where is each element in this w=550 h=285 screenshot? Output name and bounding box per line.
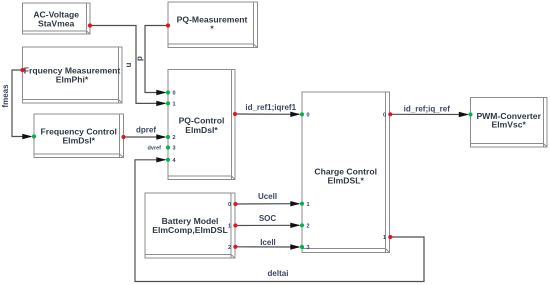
wire Ucell (Battery out0 to Charge Control in1) xyxy=(235,203,299,205)
svg-text:id_ref;iq_ref: id_ref;iq_ref xyxy=(404,104,451,113)
svg-text:Ucell: Ucell xyxy=(258,192,277,201)
port out0 of PQ-Control (red) xyxy=(233,112,237,116)
arrow into PQ-Control in4 xyxy=(156,157,166,162)
wire id_ref1;iqref1 (PQ-Control out0 to Charge Control in0) xyxy=(235,113,299,115)
svg-text:id_ref1;iqref1: id_ref1;iqref1 xyxy=(245,103,296,112)
block U2 PQ-Measurement xyxy=(168,2,258,48)
wire p (PQ-Measurement out to PQ-Control in0) xyxy=(145,26,167,93)
arrow into PWM-Converter in0 xyxy=(459,112,469,117)
port in0 of Frequency Control (green) xyxy=(32,134,36,138)
port in1 of Charge Control (green) + pin number 1 xyxy=(300,202,304,206)
port out1 of Battery Model (red) + pin number 1 xyxy=(233,223,237,227)
arrow into Charge Control in0 xyxy=(290,112,300,117)
svg-text:ElmDsl*: ElmDsl* xyxy=(62,135,95,145)
wire dpref (Frequency Control out to PQ-Control in2) xyxy=(124,136,166,138)
svg-text:deltai: deltai xyxy=(268,269,289,278)
svg-text:2: 2 xyxy=(228,245,231,251)
svg-text:3: 3 xyxy=(307,245,310,251)
wire u (AC-Voltage out to PQ-Control in1) xyxy=(90,26,165,104)
svg-text:0: 0 xyxy=(173,91,176,97)
svg-text:ElmVsc*: ElmVsc* xyxy=(491,120,526,130)
port in0 of Charge Control (green) + pin number 0 xyxy=(300,112,304,116)
svg-text:1: 1 xyxy=(228,224,231,230)
arrow into PQ-Control in1 xyxy=(156,101,166,106)
svg-text:0: 0 xyxy=(307,113,310,119)
port in0 of PWM-Converter (green) xyxy=(468,112,472,116)
svg-text:1: 1 xyxy=(383,235,386,241)
svg-text:dvref: dvref xyxy=(148,146,162,152)
svg-text:u: u xyxy=(124,62,133,67)
svg-text:dpref: dpref xyxy=(136,125,156,134)
port out0 of Battery Model (red) + pin number 0 xyxy=(233,202,237,206)
port out2 of Battery Model (red) + pin number 2 xyxy=(233,245,237,249)
svg-text:SOC: SOC xyxy=(259,214,277,223)
wire deltai feedback (Charge Control out1 to PQ-Control in4) xyxy=(135,160,424,282)
svg-text:ElmComp,ElmDSL: ElmComp,ElmDSL xyxy=(152,225,227,235)
wire SOC (Battery out1 to Charge Control in2) xyxy=(235,224,299,226)
block U1 AC-Voltage StaVmea xyxy=(23,3,91,34)
port in2 of PQ-Control (green) + pin number 2 xyxy=(166,135,170,139)
arrow into Charge Control in3 xyxy=(290,244,300,249)
arrow into Charge Control in1 xyxy=(290,201,300,206)
wire Icell (Battery out2 to Charge Control in3) xyxy=(235,246,299,248)
port in0 of PQ-Control (green) + pin number 0 xyxy=(166,90,170,94)
wire id_ref;iq_ref (Charge Control out0 to PWM-Converter in0) xyxy=(390,113,468,115)
arrow into PQ-Control in0 xyxy=(156,90,166,95)
port in2 of Charge Control (green) + pin number 2 xyxy=(300,223,304,227)
svg-text:Icell: Icell xyxy=(260,238,276,247)
port in3 of Charge Control (green) + pin number 3 xyxy=(300,245,304,249)
port out0 of Charge Control (red) + pin number 0 xyxy=(388,112,392,116)
block U7 Charge Control ElmDSL* xyxy=(302,92,390,253)
svg-text:2: 2 xyxy=(307,224,310,230)
svg-text:3: 3 xyxy=(173,146,176,152)
port out0 of Frequency Control (red) xyxy=(121,135,125,139)
port out1 of Charge Control (red) + pin number 1 xyxy=(388,235,392,239)
block U8 PWM-Converter ElmVsc* xyxy=(471,98,548,148)
port in1 of PQ-Control (green) + pin number 1 xyxy=(166,101,170,105)
svg-text:0: 0 xyxy=(228,202,231,208)
block U5 PQ-Control ElmDsl* xyxy=(168,70,235,180)
svg-text:ElmPhi*: ElmPhi* xyxy=(56,74,89,84)
wire fmeas (Frquency Measurement out to Frequency Control in0) xyxy=(12,70,31,137)
arrow into PQ-Control in2 xyxy=(156,134,166,139)
arrow into Charge Control in2 xyxy=(290,223,300,228)
svg-text:2: 2 xyxy=(173,135,176,141)
port out0 of PQ-Measurement (red) xyxy=(166,23,170,27)
port in3 of PQ-Control (green) + pin number 3 xyxy=(166,145,170,149)
block U4 Frequency Control ElmDsl* xyxy=(34,114,124,158)
svg-text:1: 1 xyxy=(307,202,310,208)
svg-text:0: 0 xyxy=(383,113,386,119)
svg-text:fmeas: fmeas xyxy=(1,84,10,108)
port out0 of AC-Voltage (red) xyxy=(88,23,92,27)
block U6 Battery Model ElmComp,ElmDSL xyxy=(145,193,235,258)
arrow into Frequency Control in0 xyxy=(22,134,32,139)
port out0 of Frquency Measurement (red) xyxy=(20,68,24,72)
svg-text:p: p xyxy=(135,56,144,61)
port in4 of PQ-Control (green) + pin number 4 xyxy=(166,158,170,162)
svg-text:ElmDsl*: ElmDsl* xyxy=(185,125,218,135)
svg-text:ElmDSL*: ElmDSL* xyxy=(328,175,365,185)
svg-text:StaVmea: StaVmea xyxy=(38,18,75,28)
block U3 Frquency Measurement ElmPhi* xyxy=(23,47,123,103)
svg-text:1: 1 xyxy=(173,102,176,108)
